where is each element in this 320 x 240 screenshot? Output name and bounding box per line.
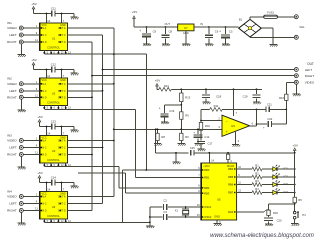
junction [61, 126, 63, 128]
wire OUT D U1 to right bus [68, 41, 93, 43]
wire feedback [222, 108, 266, 110]
svg-text:LD4: LD4 [283, 190, 288, 194]
analog switch U2 [40, 78, 68, 106]
wire input [23, 80, 39, 84]
junction [157, 128, 159, 130]
connector supply - [294, 35, 298, 39]
node IN4 [7, 189, 12, 193]
wire jack shield to ground [20, 213, 22, 223]
ground [172, 162, 180, 164]
+5V supply rail block U3 [37, 115, 51, 126]
wire to C16 [165, 105, 182, 113]
analog switch U1 [40, 23, 68, 51]
node IN1 [7, 21, 12, 25]
svg-text:LEFT: LEFT [9, 146, 17, 150]
svg-text:LEFT: LEFT [9, 202, 17, 206]
svg-text:C14: C14 [51, 175, 57, 179]
ground [222, 44, 230, 46]
capacitor C8 [162, 27, 173, 43]
junction [294, 152, 296, 154]
wire [180, 119, 182, 129]
ground [197, 149, 205, 151]
svg-text:IN D: IN D [42, 41, 47, 44]
+5V supply opamp [155, 79, 160, 90]
svg-text:OUT: OUT [307, 62, 314, 66]
junction [233, 88, 235, 90]
svg-text:IN C: IN C [42, 90, 47, 93]
analog switch U3 [40, 136, 68, 164]
wire VCC pin14 drop [47, 127, 51, 136]
svg-text:+5V: +5V [31, 2, 36, 6]
wire control to RB1 [136, 177, 201, 179]
wire OUT A to video bus [68, 140, 114, 142]
svg-text:R11: R11 [214, 104, 219, 108]
wire [155, 129, 157, 153]
svg-text:LD3: LD3 [283, 182, 288, 186]
svg-text:IN4: IN4 [7, 189, 12, 193]
svg-text:C9: C9 [153, 29, 157, 33]
wire GND pin7 to ground [62, 14, 75, 24]
capacitor C22 [257, 117, 287, 130]
wire inverting input [201, 109, 222, 120]
LED LD4 [273, 188, 289, 194]
ground [143, 44, 151, 46]
wire input [23, 93, 39, 97]
wire LED to bus [277, 192, 294, 194]
connector IN4 VIDEO [7, 195, 23, 199]
junction [102, 147, 104, 149]
svg-text:OUT C: OUT C [58, 90, 66, 93]
svg-text:R8: R8 [161, 135, 165, 139]
wire jack shield to ground [20, 157, 22, 167]
svg-text:C19: C19 [243, 95, 248, 99]
ground [70, 17, 78, 19]
connector supply + [294, 15, 298, 19]
wire control U1 vertical [145, 54, 147, 170]
wire VCC pin14 drop [47, 70, 51, 79]
wire video jack ground [295, 84, 297, 93]
svg-text:OUT C: OUT C [58, 147, 66, 150]
ground [18, 167, 26, 169]
svg-text:VIDEO: VIDEO [7, 82, 17, 86]
wire OUT A U4 [68, 196, 114, 198]
junction [149, 216, 151, 218]
svg-text:VIDEO: VIDEO [305, 81, 315, 85]
+5V supply rail block U4 [37, 171, 51, 182]
capacitor C19 [243, 89, 261, 101]
wire OUT C U4 [68, 203, 103, 205]
wire input [23, 87, 39, 91]
wire RA0 to button [237, 210, 271, 212]
connector IN4 LEFT [9, 202, 23, 206]
ground [146, 226, 154, 228]
wire [262, 168, 273, 170]
wire to R15 [269, 204, 295, 210]
push button P1 [293, 211, 306, 219]
junction [146, 26, 148, 28]
svg-text:CONTROL: CONTROL [47, 101, 60, 105]
svg-text:LD1: LD1 [283, 166, 288, 170]
connector IN3 LEFT [9, 146, 23, 150]
wire VCC pin14 drop [47, 14, 51, 24]
svg-text:R5: R5 [298, 198, 302, 202]
text website [210, 233, 314, 239]
wire OUT C U1 to left bus [68, 34, 103, 36]
wire RB6 to resistor [237, 182, 252, 185]
svg-text:LEFT: LEFT [305, 68, 313, 72]
junction [61, 13, 63, 15]
resistor R1 [252, 164, 262, 171]
svg-text:OUT A: OUT A [58, 196, 66, 199]
wire OUT A U1 to video bus [68, 27, 114, 29]
connector LEFT out [294, 68, 312, 72]
junction [185, 206, 187, 208]
junction [256, 109, 258, 111]
control pins U2 [43, 106, 71, 110]
svg-text:IN1: IN1 [7, 21, 12, 25]
svg-text:U3: U3 [52, 149, 56, 153]
svg-text:R15: R15 [273, 211, 278, 215]
capacitor C14 [51, 175, 74, 185]
wire input [23, 151, 39, 155]
junction [208, 152, 210, 154]
svg-text:U4: U4 [52, 205, 56, 209]
wire opamp V- pin4 [236, 131, 240, 144]
svg-text:+: + [226, 130, 228, 134]
resistor R15 [267, 210, 279, 215]
svg-text:R16: R16 [279, 96, 284, 100]
wire OUT C to left bus [68, 147, 103, 149]
junction [294, 168, 296, 170]
ground [18, 55, 26, 57]
svg-text:C16: C16 [169, 109, 174, 113]
wire RB4 to resistor [237, 166, 252, 169]
junction [61, 69, 63, 71]
svg-text:C13: C13 [51, 119, 57, 123]
svg-text:OUT A: OUT A [58, 140, 66, 143]
resistor R16 [279, 94, 288, 100]
junction [285, 109, 287, 111]
wire OSC2 line [150, 216, 201, 218]
svg-text:IN C: IN C [42, 147, 47, 150]
resistor R9 [180, 112, 190, 120]
wire control U2 vertical [135, 110, 137, 178]
junction [294, 184, 296, 186]
capacitor C20 [264, 218, 282, 223]
wire GND pin7 to ground [62, 183, 75, 192]
svg-text:C5: C5 [229, 29, 233, 33]
svg-text:R10: R10 [205, 124, 210, 128]
wire control U2 [44, 109, 135, 111]
junction [294, 176, 296, 178]
svg-text:GND: GND [214, 215, 220, 218]
svg-text:OSC2: OSC2 [204, 215, 212, 219]
junction [102, 69, 104, 71]
connector IN1 LEFT [9, 33, 23, 37]
capacitor C14 [193, 129, 209, 143]
svg-text:R9: R9 [185, 114, 189, 118]
svg-text:IN A: IN A [42, 140, 47, 143]
wire [294, 203, 296, 212]
junction [197, 128, 199, 130]
wire bridge AC2 to terminal [250, 36, 294, 38]
svg-text:IN A: IN A [42, 196, 47, 199]
svg-text:C12: C12 [51, 62, 57, 66]
ground [293, 94, 301, 96]
wire GND pin7 to ground [62, 70, 75, 79]
connector IN4 RIGHT [7, 209, 23, 213]
svg-text:C15: C15 [190, 146, 195, 150]
wire [175, 153, 177, 162]
wire control U4 [44, 221, 150, 223]
capacitor C18 [202, 89, 222, 101]
svg-text:+5V: +5V [155, 79, 160, 83]
resistor R4 [252, 187, 262, 194]
svg-text:IN A: IN A [42, 83, 47, 86]
wire jack shield to ground [20, 99, 22, 109]
svg-text:C2: C2 [163, 199, 167, 203]
connector IN3 RIGHT [7, 153, 23, 157]
svg-text:R6: R6 [185, 135, 189, 139]
junction [91, 96, 93, 98]
wire left bus [102, 35, 104, 204]
svg-text:+5V: +5V [292, 143, 297, 147]
capacitor C21 [266, 102, 286, 112]
junction [91, 75, 93, 77]
svg-text:RIGHT: RIGHT [305, 74, 315, 78]
resistor R11 [201, 104, 222, 111]
wire LED to bus [277, 168, 294, 170]
ground [270, 44, 278, 46]
wire LED to bus [277, 176, 294, 178]
svg-text:U7: U7 [184, 26, 188, 30]
svg-text:C18: C18 [216, 95, 221, 99]
control pins U1 [43, 51, 71, 55]
control pins U3 [43, 163, 71, 167]
svg-text:LEFT: LEFT [9, 33, 17, 37]
ground [70, 73, 78, 75]
connector RIGHT out [294, 74, 314, 78]
analog switch U4 [40, 192, 68, 220]
svg-text:VAL: VAL [299, 25, 305, 29]
wire LED to bus [277, 184, 294, 186]
wire regulator ground [185, 31, 187, 44]
wire opamp V+ pin7 [234, 89, 238, 116]
junction [205, 88, 207, 90]
resistor R13 [180, 89, 191, 101]
junction [61, 182, 63, 184]
svg-text:+VCC: +VCC [203, 165, 210, 168]
resistor R6 [180, 129, 190, 143]
svg-text:RIGHT: RIGHT [7, 40, 17, 44]
connector IN1 RIGHT [7, 40, 23, 44]
svg-text:C21: C21 [267, 102, 272, 106]
wire bridge AC1 [250, 17, 264, 20]
LED LD2 [273, 173, 289, 179]
wire input [23, 144, 39, 148]
svg-text:IN C: IN C [42, 203, 47, 206]
wire right bus [91, 42, 93, 211]
ground [232, 145, 240, 147]
svg-text:RIGHT: RIGHT [7, 95, 17, 99]
wire OUT C to left bus [68, 90, 103, 92]
svg-text:U1: U1 [52, 37, 56, 41]
wire bias rail [171, 88, 262, 90]
svg-text:OUT D: OUT D [58, 96, 66, 99]
junction [155, 128, 157, 130]
wire RB7 to resistor [237, 190, 252, 193]
ground [205, 44, 213, 46]
resistor R14 [157, 84, 171, 91]
junction [256, 123, 258, 125]
svg-text:C8: C8 [169, 29, 173, 33]
wire input [23, 38, 39, 42]
svg-text:C14: C14 [204, 135, 209, 139]
connector VIDEO out [294, 80, 314, 84]
junction [46, 126, 48, 128]
svg-text:RB6: RB6 [228, 183, 234, 187]
capacitor C15 [156, 146, 203, 156]
capacitor C9 [139, 27, 156, 43]
capacitor C6 [205, 27, 219, 43]
wire video out feed [286, 82, 294, 94]
svg-text:CONTROL: CONTROL [47, 158, 60, 162]
wire [262, 176, 273, 178]
svg-text:LEFT: LEFT [9, 89, 17, 93]
svg-text:−: − [226, 119, 228, 123]
wire control U3 [44, 166, 119, 168]
wire right output [92, 75, 294, 77]
svg-text:IN3: IN3 [7, 133, 12, 137]
node OUT [307, 62, 314, 66]
ground [182, 44, 190, 46]
wire bridge minus to ground [261, 28, 273, 44]
wire control U3 vertical [118, 167, 120, 188]
wire PIC ground pin5 [217, 220, 221, 224]
capacitor C17 [197, 130, 213, 148]
junction [46, 13, 48, 15]
ground [70, 186, 78, 188]
bridge rectifier B1 [239, 18, 262, 37]
resistor R8 [156, 129, 166, 143]
ground [178, 144, 186, 146]
svg-text:IN D: IN D [42, 154, 47, 157]
junction [102, 90, 104, 92]
fuse F1 [264, 11, 278, 19]
svg-text:OUT D: OUT D [58, 41, 66, 44]
connector IN3 VIDEO [7, 139, 23, 143]
wire control to RB3 [126, 192, 201, 194]
wire [262, 184, 273, 186]
LED LD1 [273, 165, 289, 171]
svg-text:+5V: +5V [37, 171, 42, 175]
wire OUT A to video bus [68, 83, 114, 85]
svg-text:U6: U6 [231, 124, 235, 128]
junction [256, 88, 258, 90]
svg-text:+: + [263, 126, 265, 130]
capacitor C12 [51, 62, 74, 72]
ground [162, 44, 170, 46]
wire input [23, 31, 39, 35]
svg-text:CONTROL: CONTROL [47, 46, 60, 50]
+5V supply rail block U2 [31, 58, 51, 69]
svg-text:IN C: IN C [42, 34, 47, 37]
wire [268, 215, 270, 217]
svg-text:C22: C22 [267, 117, 272, 121]
svg-text:C17: C17 [208, 142, 213, 146]
svg-text:+: + [219, 30, 221, 34]
svg-text:C3: C3 [163, 210, 167, 214]
svg-text:P1: P1 [302, 213, 306, 217]
control pins U4 [43, 219, 71, 223]
svg-text:IN2: IN2 [7, 77, 12, 81]
junction [227, 152, 229, 154]
junction [165, 26, 167, 28]
svg-text:IN: IN [200, 22, 203, 26]
wire input [23, 207, 39, 211]
junction [46, 69, 48, 71]
wire input [23, 193, 39, 197]
svg-text:CONTROL: CONTROL [47, 214, 60, 218]
connector IN2 VIDEO [7, 82, 23, 86]
svg-text:VCC: VCC [42, 79, 47, 82]
svg-text:OUT C: OUT C [58, 34, 66, 37]
op-amp U6 [222, 115, 250, 136]
ground [265, 224, 273, 226]
wire control U1 [44, 53, 146, 55]
wire [180, 102, 182, 112]
wire fuse to terminal [278, 16, 295, 18]
svg-text:+5V: +5V [37, 115, 42, 119]
svg-text:B1: B1 [239, 18, 243, 22]
junction [185, 216, 187, 218]
svg-text:RB0: RB0 [204, 168, 210, 172]
wire OUT D to right bus [68, 154, 93, 156]
wire input [23, 24, 39, 28]
junction [113, 83, 115, 85]
svg-text:RB5: RB5 [228, 175, 234, 179]
svg-text:RA0: RA0 [228, 210, 234, 214]
wire crystal ground [149, 207, 151, 225]
svg-text:VIDEO: VIDEO [7, 26, 17, 30]
wire OSC1 line [150, 206, 201, 208]
regulator U7 [164, 22, 203, 35]
junction [91, 154, 93, 156]
junction [145, 169, 147, 171]
svg-text:OUT A: OUT A [58, 27, 66, 30]
svg-text:+: + [159, 107, 161, 111]
junction [113, 128, 115, 130]
wire OUT D U4 [68, 210, 93, 212]
wire rail to bridge [194, 26, 239, 28]
svg-text:OSC1: OSC1 [204, 205, 212, 209]
svg-text:+: + [193, 130, 195, 134]
junction [180, 88, 182, 90]
crystal X1 [175, 207, 189, 217]
svg-text:+5V: +5V [31, 58, 36, 62]
wire PIC supply rail [203, 152, 295, 154]
junction [200, 120, 202, 122]
svg-text:+: + [139, 29, 141, 33]
svg-text:U2: U2 [52, 92, 56, 96]
junction [113, 53, 115, 55]
+5V supply PIC [292, 143, 297, 152]
microcontroller U5 [201, 163, 237, 220]
ground [154, 144, 162, 146]
junction [294, 192, 296, 194]
svg-text:RIGHT: RIGHT [7, 209, 17, 213]
junction [180, 104, 182, 106]
